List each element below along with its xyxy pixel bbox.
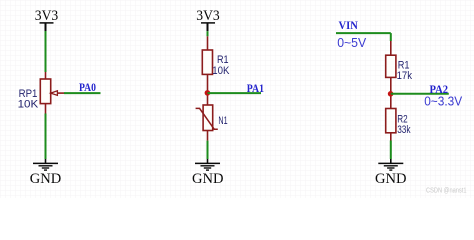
svg-text:CSDN @nanst1: CSDN @nanst1 [426,187,467,194]
svg-text:33k: 33k [397,124,411,136]
svg-text:N1: N1 [218,115,227,127]
svg-text:0~5V: 0~5V [337,35,366,50]
svg-text:GND: GND [192,171,224,187]
svg-text:3V3: 3V3 [35,8,59,24]
svg-text:10K: 10K [18,98,39,110]
svg-text:GND: GND [375,171,407,187]
svg-text:PA0: PA0 [79,80,96,94]
svg-text:10K: 10K [212,65,230,77]
svg-text:17k: 17k [397,70,413,82]
svg-text:0~3.3V: 0~3.3V [424,93,462,108]
svg-text:3V3: 3V3 [196,8,220,24]
svg-text:PA1: PA1 [247,81,264,95]
svg-text:VIN: VIN [339,18,359,32]
svg-text:GND: GND [30,171,62,187]
